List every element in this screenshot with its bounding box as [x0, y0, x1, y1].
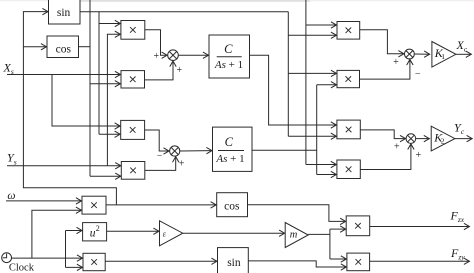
multiplier X1L: [121, 21, 145, 40]
transfer-function block C/(As+1) upper: [209, 35, 250, 78]
svg-text:+: +: [176, 65, 182, 76]
wire K1 output to Xc arrow: [456, 53, 471, 55]
wire bottom sin output to XB5 in2: [248, 261, 346, 267]
wire cos branch to X4L in2: [90, 175, 121, 177]
wire omega input to XB1 in1: [6, 200, 81, 202]
svg-text:ω: ω: [7, 190, 15, 202]
wire m branch to XB5 in1: [330, 258, 346, 260]
svg-text:cos: cos: [224, 200, 240, 212]
wire Clock branch vertical x65.5: [65, 231, 67, 268]
wire X4L output to S2 bottom: [145, 157, 176, 171]
svg-text:+: +: [153, 51, 159, 62]
multiplier XB2 (clock x clock): [83, 253, 105, 270]
multiplier X2R: [337, 70, 360, 87]
svg-text:2: 2: [96, 224, 100, 233]
wire sin branch to X1L in1: [99, 23, 120, 25]
wire epsilon output to m input: [183, 232, 285, 234]
svg-text:sin: sin: [57, 7, 71, 19]
wire Clock branch to u2 input: [66, 230, 82, 232]
wire cos branch to X1R in1: [306, 24, 336, 26]
svg-text:C: C: [224, 42, 233, 56]
wire u2 output to epsilon input: [107, 230, 159, 232]
wire sin output run to x288.3: [80, 11, 288, 13]
wire S1 output to C1 input: [178, 54, 208, 56]
wire S4 output to K2 input: [416, 138, 430, 140]
wire m output to branch vertical x331: [308, 233, 330, 235]
wire C2 feedback vertical: [316, 85, 318, 175]
wire sin bus vertical x99: [98, 12, 100, 135]
wire C1 output to X3R in1: [250, 55, 337, 125]
wire Clock output to XB2 in1: [12, 257, 83, 259]
svg-text:Clock: Clock: [9, 262, 35, 273]
scan artifact gray band at top: [0, 0, 474, 1]
svg-text:As + 1: As + 1: [214, 59, 243, 71]
sum junction S2 (lower Y channel): [170, 146, 180, 156]
sum junction S1 (upper X channel): [168, 50, 179, 61]
svg-text:1: 1: [441, 52, 445, 61]
wire cos output to bus: [79, 46, 91, 48]
wire m branch vertical: [329, 229, 331, 259]
svg-text:cos: cos: [56, 43, 72, 55]
svg-text:+: +: [179, 159, 185, 170]
svg-text:−: −: [157, 151, 163, 162]
wire X3L output to S2 left: [145, 130, 169, 151]
wire S2 output to C2 input: [180, 150, 212, 152]
wire XB1 output branch up-left to sin/cos feed: [23, 12, 116, 205]
wire m branch to XB4 in2: [330, 228, 346, 230]
wire XB1 output to bottom cos input: [106, 204, 216, 206]
wire bottom cos output to XB4 in1: [248, 205, 346, 222]
gain m: [285, 223, 308, 248]
wire Clock branch up to XB1 in2: [32, 210, 81, 258]
svg-text:As + 1: As + 1: [215, 153, 244, 165]
block sin (bottom, bottom edge clipped): [218, 248, 249, 273]
wire XB2 output to bottom sin input: [105, 260, 217, 262]
gain epsilon: [160, 221, 183, 246]
wire sin branch to X2R in1: [288, 72, 336, 74]
wire XB5 output to Fzy arrow: [370, 260, 470, 262]
wire X1R output to S3 left: [360, 30, 404, 54]
svg-text:+: +: [394, 141, 400, 152]
wire Ys input to X4L in1: [7, 165, 121, 167]
multiplier XB1 (omega x clock): [82, 196, 106, 214]
wire cos branch to X4R in1: [306, 164, 336, 166]
wire K2 output to Yc arrow: [455, 138, 472, 140]
sum junction S4 (Yc): [406, 134, 416, 144]
multiplier X1R: [337, 22, 360, 40]
block u^2: [83, 223, 107, 241]
wire X2L output to S1 bottom: [145, 61, 174, 80]
wire Xs input to X2L in1: [7, 74, 120, 76]
wire C2 feedback to X2R in2: [317, 84, 337, 86]
wire feed branch to cos input: [23, 46, 46, 48]
block sin (top-left, top edge clipped): [49, 0, 81, 24]
svg-text:sin: sin: [227, 257, 241, 269]
wire cos bus vertical x90 (clipped at top): [89, 0, 91, 176]
wire X3R output to S4 left: [360, 130, 405, 139]
transfer-function block C/(As+1) lower: [213, 127, 253, 171]
wire S3 output to K1 input: [414, 53, 429, 55]
multiplier XB5 (Fzy product): [347, 253, 370, 271]
wire C2 feedback to X4R in2: [317, 174, 337, 176]
multiplier X3L: [121, 120, 145, 139]
wire sin branch to X1R in2: [288, 34, 336, 36]
svg-text:+: +: [415, 150, 421, 161]
wire Ys branch up to X1L in2: [107, 34, 120, 165]
wire Xs branch down to X3L in1: [52, 75, 120, 127]
wire cos branch to X2L in2: [90, 83, 120, 85]
wire cos bus vertical x305.9 (clipped at top): [305, 0, 307, 165]
source Clock icon: [2, 253, 12, 263]
multiplier X2L: [121, 71, 145, 88]
gain K1: [432, 42, 456, 68]
wire X1L output to S1 left: [145, 30, 167, 55]
svg-text:2: 2: [441, 137, 445, 146]
gain K2: [431, 126, 455, 151]
wire X2R output to S3 bottom: [360, 60, 410, 80]
block cos (top-left): [47, 36, 79, 58]
wire sin branch to X3R in2: [288, 135, 336, 137]
wire sin branch to X3L in2: [99, 133, 120, 135]
svg-text:C: C: [225, 135, 234, 149]
multiplier X3R: [337, 120, 360, 139]
sum junction S3 (Xc): [405, 49, 415, 59]
multiplier X4R: [337, 160, 360, 179]
svg-text:+: +: [393, 57, 399, 68]
svg-text:−: −: [415, 69, 421, 80]
svg-text:m: m: [290, 230, 298, 241]
block cos (bottom): [217, 193, 248, 217]
wire C2 output to feedback vertical x316.7: [252, 149, 317, 151]
wire X4R output to S4 bottom: [360, 144, 411, 169]
wire XB4 output to Fzx arrow: [370, 226, 470, 228]
multiplier XB4 (Fzx product): [346, 216, 370, 236]
wire Clock branch to XB2 in2: [66, 266, 83, 268]
wire sin bus vertical x288.3: [287, 12, 289, 137]
multiplier X4L: [121, 162, 145, 180]
